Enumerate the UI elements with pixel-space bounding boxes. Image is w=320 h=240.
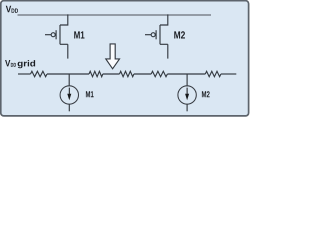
label M2 — [174, 31, 185, 38]
net label VDD grid — [5, 60, 35, 68]
wire grid segment 2 — [47, 73, 89, 75]
wire grid segment 4 — [134, 73, 151, 75]
current source M1 — [60, 86, 78, 104]
label M2 (current source) — [202, 91, 210, 97]
resistor 3 — [120, 71, 134, 76]
wire VDD rail — [18, 14, 212, 16]
block arrow — [106, 44, 120, 69]
transistor M1 — [45, 15, 68, 45]
label M1 — [74, 31, 84, 38]
resistor 1 — [31, 71, 48, 76]
wire below current source M1 — [68, 104, 70, 111]
wire grid to current source M2 — [186, 74, 188, 86]
label M1 (current source) — [86, 91, 94, 97]
resistor 2 — [89, 71, 103, 76]
net label VDD — [6, 6, 18, 13]
wire M2 drain stub — [167, 44, 169, 58]
wire grid segment 3 — [103, 73, 120, 75]
wire below current source M2 — [186, 104, 188, 111]
resistor 4 — [151, 71, 167, 76]
current source M2 — [178, 86, 196, 104]
wire grid to current source M1 — [68, 74, 70, 86]
wire M1 drain stub — [67, 44, 69, 58]
resistor 5 — [205, 71, 221, 76]
transistor M2 — [145, 15, 168, 45]
wire grid segment 1 — [18, 73, 31, 75]
wire grid segment 5 — [167, 73, 205, 75]
wire grid segment 6 — [221, 73, 236, 75]
